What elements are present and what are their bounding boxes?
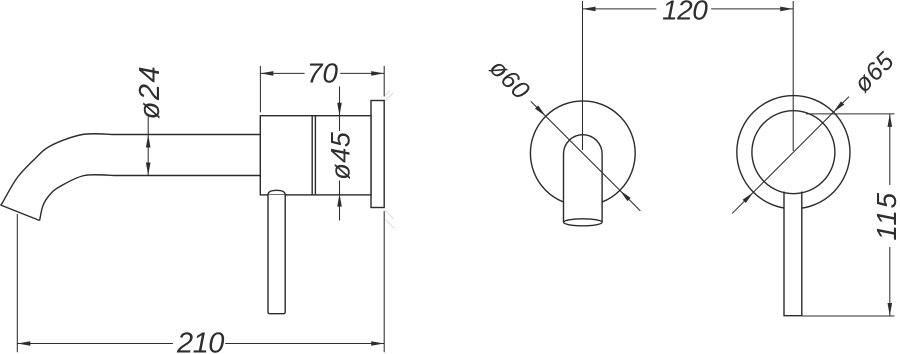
wire: spout mouth face (1, 205, 40, 221)
dimension 70 line right segment (340, 72, 384, 74)
wire: spout outer curve (side view) (1, 134, 261, 205)
svg-text:70: 70 (307, 58, 339, 89)
wall hatch bottom (385, 210, 394, 229)
node: handle trim outer circle (front view) (737, 96, 850, 209)
dimension 115 line bottom segment (889, 247, 891, 316)
dimension ø60 arrow upper-left (535, 105, 546, 116)
node: spout escutcheon circle (front view) (530, 101, 635, 206)
dimension 120 extension line left (582, 1, 584, 150)
dimension 210 line left segment (17, 343, 173, 345)
node: handle lever bar (front view) (784, 192, 802, 316)
node: valve body (side view) (260, 116, 371, 195)
dimension 120 line left segment (583, 8, 657, 10)
dimension 210 extension line right (383, 211, 385, 352)
dimension ø65 arrow top-right (833, 101, 844, 112)
dimension 70 arrow right (371, 71, 384, 76)
wire: body joint double line (311, 116, 313, 195)
dimension 120 arrow right (780, 7, 793, 12)
dimension 210 arrow right (371, 341, 384, 346)
dimension 115 arrow up (888, 114, 893, 127)
dimension 70 extension line left (259, 66, 261, 112)
dimension 115 arrow down (888, 303, 893, 316)
dimension ø24 arrow down (146, 163, 151, 176)
wall hatch top (385, 91, 393, 101)
svg-text:115: 115 (871, 191, 900, 240)
dimension ø65 arrow bottom-left (743, 192, 754, 203)
dimension 120 line right segment (711, 8, 793, 10)
dimension ø65 diagonal line (732, 97, 849, 214)
dimension ø60 arrow lower-right (620, 190, 631, 201)
dimension 120 arrow left (583, 7, 596, 12)
dimension 210 line right segment (225, 343, 384, 345)
svg-text:210: 210 (176, 328, 224, 354)
wire: lever dome cap (268, 190, 285, 195)
dimension 115 extension line top (806, 113, 895, 115)
node: spout tip ellipse (564, 219, 603, 226)
dimension ø45 arrow up (337, 194, 342, 207)
dimension 115 extension line bottom (803, 315, 895, 317)
dimension 120 extension line right (792, 1, 794, 151)
node: spout tube (front view) (564, 135, 603, 222)
dimension 210 extension line left (16, 214, 18, 352)
dimension 70 extension line right (383, 66, 385, 97)
dimension ø45 line top segment (339, 87, 341, 132)
svg-text:120: 120 (662, 0, 708, 26)
dimension ø45 arrow down (337, 103, 342, 116)
dimension ø24 leader line (147, 117, 149, 176)
dimension ø24 arrow up (146, 135, 151, 148)
node: handle lever (side view) (268, 195, 285, 314)
node: wall plate (side view) (371, 101, 384, 208)
svg-text:ø24: ø24 (134, 65, 166, 119)
node: handle inner circle (752, 111, 835, 194)
svg-text:ø65: ø65 (849, 47, 900, 98)
wire: spout inner curve (40, 175, 261, 221)
dimension 115 line top segment (889, 114, 891, 185)
dimension 70 arrow left (260, 71, 273, 76)
svg-text:ø45: ø45 (326, 131, 356, 180)
dimension 70 line left segment (260, 72, 304, 74)
dimension 210 arrow left (17, 341, 30, 346)
svg-text:ø60: ø60 (484, 54, 535, 105)
dimension ø45 line bottom segment (339, 181, 341, 221)
dimension ø60 diagonal line (531, 101, 640, 210)
